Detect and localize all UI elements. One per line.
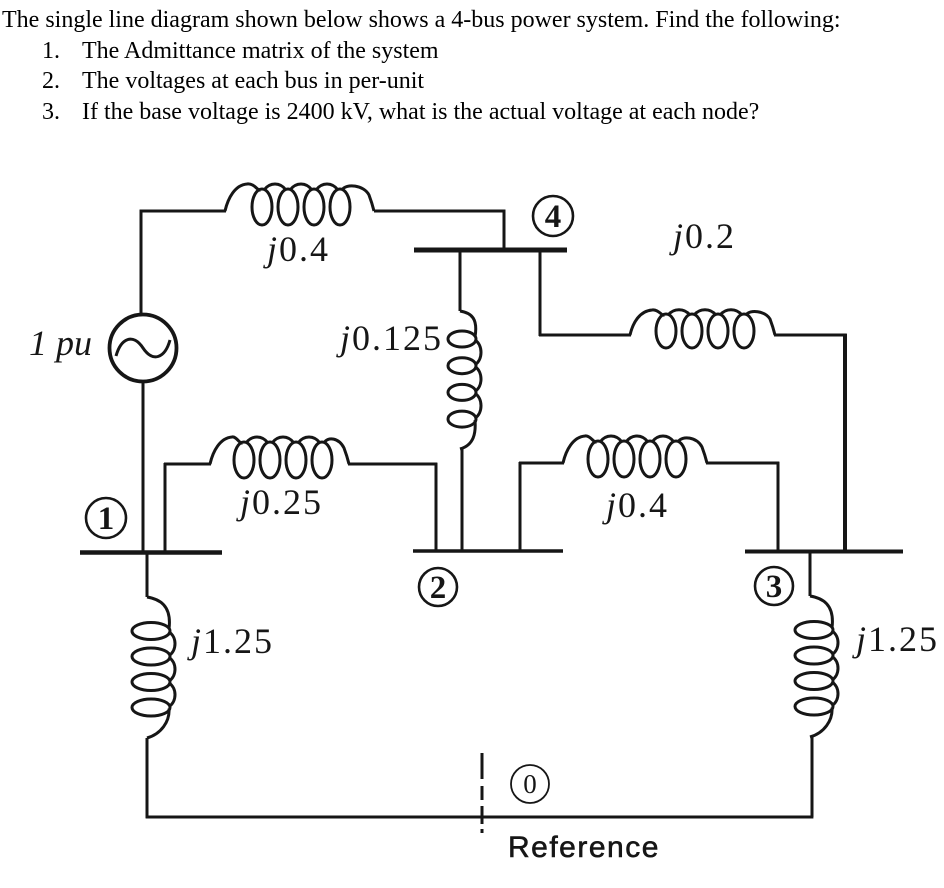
svg-text:1 pu: 1 pu — [29, 323, 92, 363]
svg-text:3: 3 — [766, 569, 783, 605]
svg-text:j0.2: j0.2 — [669, 216, 736, 256]
svg-text:j1.25: j1.25 — [852, 619, 939, 659]
svg-text:j0.4: j0.4 — [602, 485, 669, 525]
svg-text:1: 1 — [98, 501, 115, 537]
svg-text:0: 0 — [523, 769, 537, 799]
svg-text:j0.4: j0.4 — [263, 229, 330, 269]
svg-text:j0.125: j0.125 — [336, 318, 443, 358]
svg-text:Reference: Reference — [508, 831, 660, 864]
svg-text:j1.25: j1.25 — [187, 621, 274, 661]
svg-text:2: 2 — [430, 570, 447, 606]
svg-text:4: 4 — [545, 199, 562, 235]
svg-text:j0.25: j0.25 — [236, 482, 323, 522]
